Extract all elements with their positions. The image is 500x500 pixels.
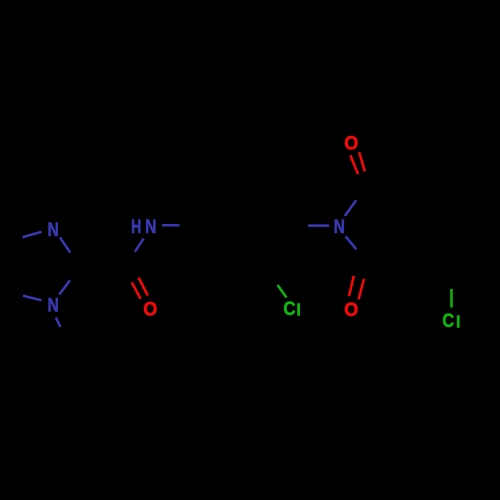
- bond Nph-Cbot C half (carbon, black): [356, 249, 367, 262]
- bond N1-CH3 half: [56, 318, 61, 327]
- svg-text:l: l: [456, 313, 461, 331]
- bond C=O amide b: [139, 278, 148, 296]
- bond Nph-Ctop C half (carbon, black): [356, 184, 367, 200]
- bond C4=C5 (carbon, black): [3, 243, 6, 291]
- bond CCl-Cl half: [450, 289, 453, 308]
- bond Nam-Ccarb half: [135, 239, 144, 252]
- bond N3-C2 C half (carbon, black): [70, 253, 80, 267]
- bond C=O top b: [359, 152, 365, 171]
- bond N3-C2 half: [60, 237, 70, 252]
- svg-text:O: O: [143, 298, 157, 320]
- svg-text:H: H: [131, 216, 141, 238]
- svg-text:O: O: [344, 299, 358, 321]
- svg-text:C: C: [283, 298, 295, 320]
- bond Ctop-Btop (carbon, black): [368, 184, 415, 199]
- bond Cbot-Bbot (carbon, black): [368, 253, 415, 263]
- bond Nph-C4benz half: [308, 224, 329, 227]
- bond C=O top a: [350, 155, 358, 174]
- svg-text:O: O: [344, 133, 358, 155]
- bond C=O bot b: [359, 279, 364, 299]
- bond C=O amide a: [132, 282, 141, 298]
- benzene ring C1-C6 (carbon, invisible on black): [197, 187, 286, 264]
- bond Nph-Ctop half: [345, 200, 356, 216]
- bond Nam-C1benz C half (carbon, black): [180, 224, 197, 227]
- bond Nam-C1benz half: [162, 224, 179, 227]
- bond C2-Ccarbonyl (carbon, black): [80, 265, 126, 267]
- bond N1-C5 C half (carbon, black): [5, 291, 24, 296]
- svg-text:l: l: [296, 301, 301, 319]
- bond N1-CH3 C half (carbon, black): [60, 327, 65, 336]
- bond N1-C5 half: [23, 296, 42, 301]
- bond C5benz-Cl C half (carbon, black): [264, 264, 278, 285]
- bond Nph-C4benz C half (carbon, black): [286, 224, 308, 227]
- svg-text:N: N: [334, 216, 345, 238]
- bond N3-C4 half: [23, 232, 42, 237]
- bond C5benz-Cl half: [278, 285, 287, 298]
- svg-text:N: N: [145, 216, 156, 238]
- bond N1-C2 C half (carbon, black): [70, 267, 80, 280]
- bond N1-C2 half: [59, 280, 70, 295]
- bond Nam-Ccarb C half (carbon, black): [126, 252, 135, 265]
- svg-text:C: C: [442, 310, 454, 332]
- bond Nph-Cbot half: [346, 236, 357, 249]
- bond benzo fused edge (carbon, black): [414, 200, 417, 253]
- bond N3-C4 C half (carbon, black): [4, 237, 23, 243]
- svg-text:N: N: [48, 295, 59, 317]
- svg-text:N: N: [48, 219, 59, 241]
- bond CCl-Bbot (carbon, black): [415, 253, 451, 270]
- bond C=O bot a: [349, 276, 354, 296]
